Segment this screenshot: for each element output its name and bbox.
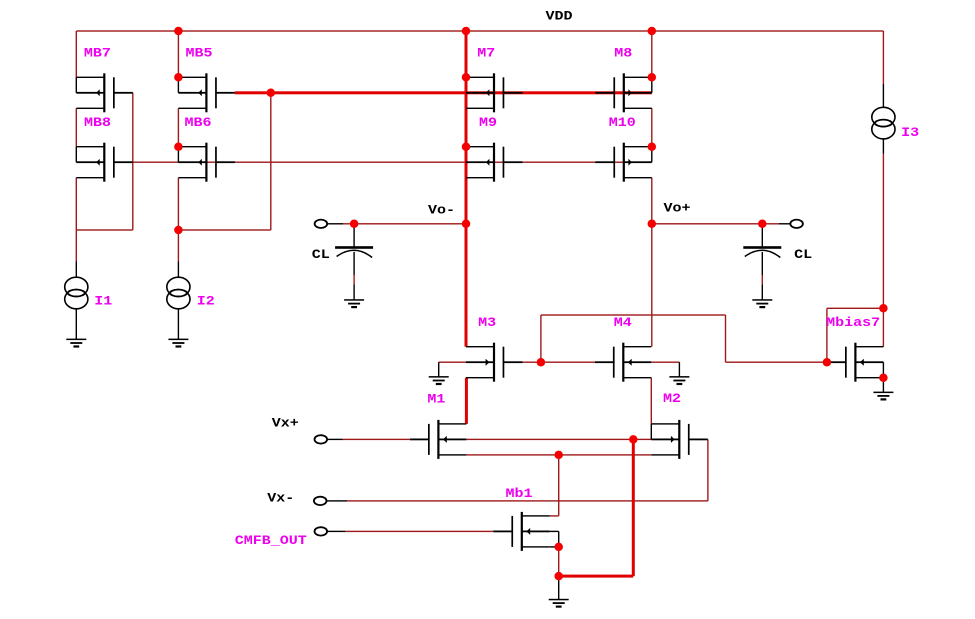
wire tail bulk net horizontal (thick) — [559, 575, 634, 578]
ground I1 — [66, 339, 86, 348]
transistor MB6 — [178, 143, 235, 182]
terminal Vx- open circle — [314, 497, 327, 505]
node junction M8 drain — [648, 73, 657, 82]
svg-text:Vx-: Vx- — [267, 490, 294, 505]
wire Vo- to CL — [354, 223, 466, 224]
svg-text:CL: CL — [312, 247, 330, 262]
current source I1 — [65, 262, 88, 340]
wire M10 drain-bulk tie — [651, 147, 652, 163]
wire M10 source to Vo+ — [651, 178, 652, 224]
current source I3 — [872, 84, 895, 154]
label MB5 — [186, 46, 213, 61]
label MB7 — [84, 46, 111, 61]
current source I2 — [167, 262, 190, 340]
svg-text:CMFB_OUT: CMFB_OUT — [235, 533, 307, 548]
label M2 — [663, 391, 681, 406]
transistor Mb1 — [493, 512, 550, 551]
svg-text:M9: M9 — [479, 115, 497, 130]
svg-text:Vx+: Vx+ — [272, 415, 299, 430]
wire M1-M2 source bus — [466, 454, 651, 455]
transistor M8 — [595, 73, 652, 112]
svg-text:M7: M7 — [477, 46, 495, 61]
node junction M10 drain — [648, 142, 657, 151]
wire VDD rail — [76, 30, 883, 31]
wire CL right terminal stub — [762, 223, 791, 224]
wire gate bus loop up — [540, 315, 541, 362]
wire M4 drain from Vo+ — [651, 224, 652, 347]
wire CMFB_OUT to Mb1 gate — [326, 531, 493, 532]
transistor M4 — [595, 343, 652, 382]
wire M8 source to M10 drain — [651, 108, 652, 146]
label CL left — [312, 247, 330, 262]
transistor Mbias7 — [827, 343, 884, 382]
svg-text:M4: M4 — [614, 315, 632, 330]
wire gate bus MB5-M7-M8 (thick) — [235, 91, 652, 94]
ground tail — [549, 576, 569, 608]
svg-text:Mbias7: Mbias7 — [826, 315, 880, 330]
wire Vo+ to CL — [652, 223, 763, 224]
svg-text:M2: M2 — [663, 391, 681, 406]
terminal Vo+ open circle — [790, 220, 803, 228]
node junction VDD-MB5 — [174, 27, 183, 36]
capacitor CL left — [335, 224, 373, 308]
node junction CL right — [758, 220, 767, 229]
svg-text:MB8: MB8 — [84, 115, 111, 130]
node junction I3-Mbias7 drain — [879, 304, 888, 313]
wire loop to Mbias7 gate — [726, 362, 827, 363]
svg-text:MB5: MB5 — [186, 46, 213, 61]
wire M4 bulk to ground — [651, 362, 679, 363]
wire CL left terminal stub — [326, 223, 354, 224]
node junction VDD-M7 — [462, 27, 471, 36]
wire M3 source to M1 drain (thick) — [465, 378, 468, 424]
svg-text:I3: I3 — [901, 125, 919, 140]
svg-text:M1: M1 — [427, 391, 445, 406]
label M3 — [478, 315, 496, 330]
node junction MB6 drain — [174, 142, 183, 151]
label I3 — [901, 125, 919, 140]
node junction CL left — [350, 220, 359, 229]
wire MB7 gate loop horizontal — [76, 229, 133, 230]
label M1 — [427, 391, 445, 406]
wire MB8 source down to I1 — [76, 178, 77, 262]
label M7 — [477, 46, 495, 61]
node junction gate bus — [267, 89, 276, 98]
wire Vx- to M2 gate loop — [326, 439, 709, 501]
node Vo+ label — [664, 200, 691, 215]
node VDD label — [546, 9, 573, 24]
transistor M7 — [466, 73, 523, 112]
wire Mb1 drain up to source bus — [550, 455, 560, 517]
svg-text:I2: I2 — [197, 294, 215, 309]
transistor M10 — [595, 143, 652, 182]
transistor M2 — [651, 420, 708, 459]
label CL right — [794, 247, 812, 262]
svg-text:Mb1: Mb1 — [506, 486, 533, 501]
label M8 — [614, 46, 632, 61]
wire MB5 source to MB6 drain — [178, 108, 179, 146]
terminal Vo- open circle — [315, 220, 328, 228]
transistor MB5 — [178, 73, 235, 112]
label MB8 — [84, 115, 111, 130]
svg-text:CL: CL — [794, 247, 812, 262]
svg-text:MB7: MB7 — [84, 46, 111, 61]
wire Mbias7 bulk-source tie — [883, 362, 884, 378]
wire M4 source to M2 drain — [651, 378, 652, 424]
terminal Vx+ open circle — [315, 435, 328, 443]
wire MB7 gate loop vertical — [132, 93, 133, 230]
label I2 — [197, 294, 215, 309]
wire Mb1 source to ground node — [558, 547, 559, 576]
svg-text:MB6: MB6 — [185, 115, 212, 130]
node Vx- label — [267, 490, 294, 505]
label M9 — [479, 115, 497, 130]
wire Vx+ to M1 gate — [326, 439, 410, 440]
node junction Vo- — [462, 220, 471, 229]
wire MB5 drain from VDD — [178, 31, 179, 77]
wire Mbias7 gate to drain loop — [826, 308, 883, 363]
wire MB7 source to MB8 drain — [76, 108, 77, 146]
ground M3 bulk — [429, 362, 449, 385]
node junction M7 drain — [462, 73, 471, 82]
wire MB6 drain-bulk tie — [178, 147, 179, 163]
node CMFB_OUT label — [235, 533, 307, 548]
node junction Mb1 source — [554, 543, 563, 552]
wire M1-M2 bulk bus — [466, 439, 651, 440]
label I1 — [94, 294, 112, 309]
wire MB7 drain from VDD — [76, 31, 77, 77]
wire M3-M4 gate bus — [523, 362, 595, 363]
wire VDD to I3 — [883, 31, 884, 84]
svg-text:I1: I1 — [94, 294, 112, 309]
node junction MB5 drain — [174, 73, 183, 82]
wire MB6 source down to I2 — [178, 178, 179, 262]
wire MB5 gate loop vertical — [270, 93, 271, 230]
node junction tail ground — [554, 572, 563, 581]
node junction Mbias7 gate — [823, 358, 832, 367]
node junction Vo+ — [648, 220, 657, 229]
node Vx+ label — [272, 415, 299, 430]
wire MB5 drain-bulk tie — [178, 77, 179, 93]
label Mbias7 — [826, 315, 880, 330]
node junction bulk bus to tail — [629, 435, 638, 444]
capacitor CL right — [743, 224, 781, 308]
label M10 — [609, 115, 636, 130]
transistor MB8 — [76, 143, 133, 182]
transistor MB7 — [76, 73, 133, 112]
svg-text:Vo+: Vo+ — [664, 200, 691, 215]
node junction source bus to Mb1 drain — [554, 451, 563, 460]
svg-text:Vo-: Vo- — [428, 202, 455, 217]
wire M2 drain-bulk tie — [651, 424, 652, 440]
node Vo- label — [428, 202, 455, 217]
label Mb1 — [506, 486, 533, 501]
wire gate bus loop horizontal — [541, 314, 726, 315]
label MB6 — [185, 115, 212, 130]
wire M8 drain-bulk tie — [651, 77, 652, 93]
node junction MB5 loop — [174, 226, 183, 235]
wire M8 drain from VDD — [651, 31, 652, 77]
ground I2 — [168, 339, 188, 348]
wire gate bus loop down — [725, 315, 726, 362]
node junction M3-M4 gate bus — [537, 358, 546, 367]
wire MB7 drain-bulk tie — [76, 77, 77, 93]
ground M4 bulk — [669, 362, 689, 385]
node junction VDD-M8 — [648, 27, 657, 36]
wire tail bulk net down (thick) — [632, 439, 635, 576]
wire M3 bulk to ground — [439, 362, 466, 363]
transistor M3 — [466, 343, 523, 382]
wire Mb1 bulk-source tie — [550, 531, 560, 548]
transistor M1 — [410, 420, 467, 459]
wire MB8 drain-bulk tie — [76, 147, 77, 163]
wire M7-M9 column down to M3 drain (thick) — [465, 31, 468, 347]
terminal CMFB_OUT open circle — [315, 527, 328, 535]
svg-text:M8: M8 — [614, 46, 632, 61]
wire I3 to Mbias7 drain — [883, 154, 884, 347]
wire row2 gate bus MB8-MB6-M9-M10 — [133, 162, 651, 163]
node junction Mbias7 source — [879, 373, 888, 382]
transistor M9 — [466, 143, 523, 182]
svg-text:M3: M3 — [478, 315, 496, 330]
wire MB5 gate loop horizontal — [178, 229, 270, 230]
svg-text:M10: M10 — [609, 115, 636, 130]
svg-text:VDD: VDD — [546, 9, 573, 24]
label M4 — [614, 315, 632, 330]
ground Mbias7 source — [873, 378, 893, 401]
node junction M9 drain — [462, 142, 471, 151]
